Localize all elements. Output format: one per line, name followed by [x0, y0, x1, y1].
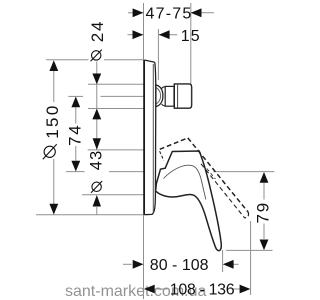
wire extension line pivot y171.6 left: [66, 171, 85, 173]
wire extension line wall bottom x143.5: [143, 215, 145, 299]
wire extension line plate top y59.8: [46, 59, 89, 61]
arrow 47-75 left: [133, 8, 144, 17]
wire extension line knob axis y96.4: [68, 95, 83, 97]
arrow 74 bottom: [71, 161, 80, 172]
lever dashed raised position middle line: [207, 169, 216, 180]
wire dim line 15 tails y34.7: [128, 34, 144, 36]
svg-text:15: 15: [181, 28, 201, 45]
svg-text:80 - 108: 80 - 108: [150, 257, 209, 274]
wire extension line knob bottom y108.5: [88, 108, 144, 110]
arrow 15 right: [159, 30, 170, 39]
wire dim line 108-136 tails y289: [154, 288, 168, 290]
svg-text:43: 43: [87, 150, 105, 170]
handle knob ring: [165, 86, 174, 106]
arrow dia150 bottom: [49, 204, 58, 215]
arrow 79 bottom: [260, 240, 269, 251]
wire extension line wall top x143.5: [143, 3, 145, 60]
arrow dia43 lower: [93, 195, 101, 207]
handle knob neck: [162, 87, 166, 106]
svg-text:150: 150: [43, 103, 62, 139]
wire extension line plate bottom y214.8: [36, 214, 144, 216]
wire extension line lever top y149.9: [88, 149, 144, 151]
arrow 108-136 right: [240, 285, 251, 294]
wire dim line 79 x264: [263, 183, 265, 200]
svg-text:24: 24: [88, 20, 107, 43]
wire extension line lever down tip y250.4: [226, 249, 273, 251]
arrow 108-136 left: [144, 285, 155, 294]
wire extension line knob top y84.3: [88, 83, 144, 85]
diameter symbol for 43: [92, 182, 101, 191]
handle knob main cylinder: [174, 84, 191, 108]
lever inner contour line: [164, 165, 206, 199]
arrow 80-108 left: [133, 260, 144, 269]
lever dashed raised position back edge: [160, 151, 164, 160]
wire dim line 80-108 tails y264.3: [123, 263, 132, 265]
wire extension line pivot y171.6 right: [214, 171, 275, 173]
wire extension line lever tip x222.6: [222, 250, 224, 272]
wire extension line dashed lever tip x250.6: [250, 221, 252, 295]
wire extension line knob face x190.8: [190, 3, 192, 85]
lever dashed raised position upper blade edge: [188, 138, 249, 212]
arrow 74 top: [71, 97, 80, 108]
arrow 79 top: [260, 172, 269, 183]
handle knob base bulb: [156, 84, 192, 108]
wire leader line dia24-dia43 x96.8: [96, 62, 98, 151]
diameter symbol for 150: [44, 146, 55, 157]
wire dim line dia150 x53.8: [53, 71, 55, 102]
arrow dia150 top: [49, 60, 58, 71]
escutcheon plate side view: [144, 60, 156, 215]
lever dashed raised position lower blade edge: [201, 164, 245, 218]
wire dim line 74 x75.8: [75, 108, 77, 124]
svg-text:79: 79: [254, 201, 273, 224]
diameter symbol for 24: [92, 51, 101, 60]
svg-text:47-75: 47-75: [146, 6, 193, 23]
arrow dia24 upper: [92, 74, 101, 85]
arrow 47-75 right: [191, 8, 202, 17]
lever dashed raised position tip arc: [245, 212, 249, 218]
wire dim line 47-75 tails y12.8: [128, 12, 143, 14]
lever dashed raised position top edge: [160, 138, 188, 149]
wire extension line sleeve tip x158.4: [157, 29, 159, 80]
arrow 80-108 right: [223, 260, 234, 269]
arrow dia43 upper: [93, 138, 101, 150]
lever handle solid outline: [156, 151, 222, 251]
arrow dia24 lower: [92, 109, 101, 120]
wire extension line lever base y194.8: [82, 194, 144, 196]
svg-text:74: 74: [66, 123, 85, 146]
svg-text:108 - 136: 108 - 136: [170, 282, 235, 299]
arrow 15 left: [133, 30, 144, 39]
